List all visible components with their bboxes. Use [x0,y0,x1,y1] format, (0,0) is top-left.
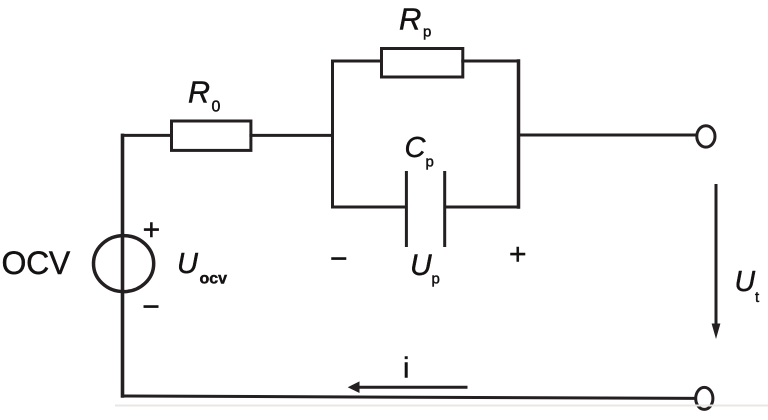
wire: RC loop right vertical [517,61,521,207]
wire: loop top-left segment [333,60,382,63]
svg-text:−: − [330,242,348,275]
faint scan artifact line at bottom [115,405,768,407]
svg-text:p: p [423,24,431,41]
svg-text:R: R [188,76,210,110]
svg-text:OCV: OCV [2,245,71,281]
resistor R0 [172,121,251,150]
svg-text:ocv: ocv [200,271,228,288]
svg-text:R: R [399,2,421,37]
svg-text:U: U [735,266,756,298]
svg-text:i: i [403,352,409,384]
wire: left vertical branch (source branch) [121,135,125,396]
arrow i (current direction, pointing left) [358,386,468,389]
wire: output to positive terminal [519,134,696,137]
svg-text:p: p [432,271,440,288]
wire: top-left horizontal into R0 [123,134,172,137]
terminal: positive output circle [697,126,715,147]
wire: R0 to RC-loop left node [251,134,333,137]
svg-text:U: U [177,248,199,280]
wire: RC loop left vertical [331,61,334,207]
resistor Rp [382,49,463,78]
svg-text:U: U [410,249,432,282]
svg-text:+: + [143,214,161,247]
svg-text:p: p [426,154,434,171]
capacitor C_p (two plates) [406,173,444,246]
wire: loop bottom-left segment to capacitor [333,206,406,209]
wire: loop bottom-right segment from capacitor [446,206,518,209]
terminal: negative output circle [696,387,713,409]
svg-text:0: 0 [212,99,221,116]
svg-text:C: C [405,132,427,164]
wire: loop top-right segment [463,60,519,63]
svg-text:−: − [142,291,160,324]
arrow Ut (terminal voltage, pointing down) [715,184,718,325]
wire: bottom return conductor [123,396,695,398]
voltage source OCV circle [94,236,154,292]
svg-text:+: + [509,238,527,271]
